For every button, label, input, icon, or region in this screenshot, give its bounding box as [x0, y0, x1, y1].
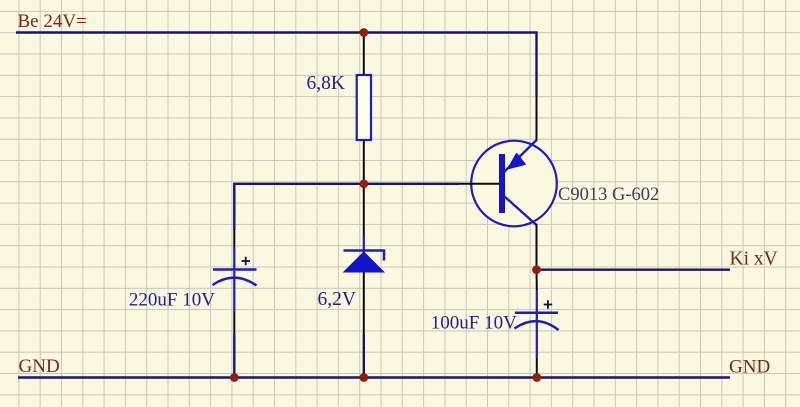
pin: Q1 base pin [459, 183, 500, 185]
wire: base node left to C1 and right to Q1 base [234, 184, 459, 230]
pin: Q1 collector pin [536, 96, 538, 142]
svg-text:GND: GND [19, 356, 60, 377]
junction at C2 / ground rail [532, 373, 541, 382]
transistor Q1 collector stroke with arrow [504, 140, 537, 172]
junction at top rail / resistor [359, 28, 368, 37]
resistor R? 6,8K body [357, 75, 371, 140]
pin: Q1 emitter pin [536, 224, 538, 270]
pin: C2 top pin [536, 270, 538, 290]
wire: D1 to ground rail [363, 334, 365, 378]
transistor Q1 emitter stroke [504, 196, 537, 225]
zener diode D1 6,2V [344, 235, 385, 272]
pin: C2 bottom pin [536, 358, 538, 378]
svg-text:6,8K: 6,8K [307, 73, 345, 94]
svg-text:Ki xV: Ki xV [730, 249, 778, 270]
wire: ground rail [18, 376, 730, 378]
junction at base node [359, 179, 368, 188]
capacitor C1 220uF 10V [213, 248, 257, 312]
svg-text:6,2V: 6,2V [318, 289, 356, 310]
pin: D1 bottom pin [363, 272, 365, 334]
svg-text:GND: GND [729, 357, 770, 378]
transistor Q1 base bar [499, 154, 505, 213]
wire: C1 to ground rail [233, 334, 235, 378]
wire: +24V top rail [16, 33, 537, 97]
svg-text:C9013 G-602: C9013 G-602 [558, 185, 659, 205]
svg-text:100uF 10V: 100uF 10V [431, 313, 517, 334]
wire: zener top (base node to D1) [363, 184, 365, 236]
wire: output to Ki xV [537, 269, 731, 271]
transistor Q1 C9013 body [471, 141, 557, 227]
capacitor C2 100uF 10V [515, 290, 559, 358]
junction at C1 / ground rail [230, 373, 239, 382]
junction at D1 / ground rail [359, 373, 368, 382]
junction at emitter / output [532, 265, 541, 274]
wire: rail to resistor top [363, 33, 365, 76]
pin: C1 top pin [233, 230, 235, 249]
pin: C1 bottom pin [233, 312, 235, 334]
svg-text:Be 24V=: Be 24V= [18, 11, 87, 32]
wire: resistor bottom to base node [363, 140, 365, 184]
svg-text:220uF 10V: 220uF 10V [129, 290, 215, 311]
